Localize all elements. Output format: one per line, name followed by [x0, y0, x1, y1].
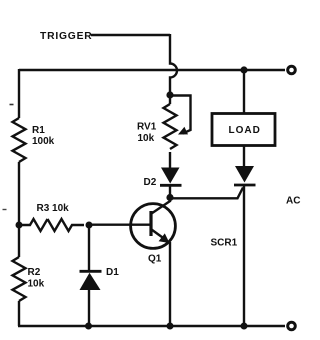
svg-text:AC: AC — [286, 196, 300, 207]
svg-text:10k: 10k — [138, 133, 155, 144]
Q1 emitter stroke — [152, 230, 167, 241]
svg-text:LOAD: LOAD — [229, 125, 261, 136]
svg-text:10k: 10k — [28, 279, 45, 290]
resistor R1 — [13, 118, 26, 162]
junction SCR1 / bottom rail — [241, 323, 248, 330]
wire left rail upper — [18, 69, 20, 118]
wire D2 cathode to collector junction — [169, 185, 171, 202]
wiper wire RV1 — [169, 96, 191, 134]
resistor R3 — [19, 219, 84, 231]
svg-text:RV1: RV1 — [137, 122, 157, 133]
svg-text:SCR1: SCR1 — [211, 238, 238, 249]
Q1 base bar — [149, 211, 152, 236]
transistor Q1 — [131, 204, 176, 249]
wire RV1 top lead — [169, 95, 171, 104]
junction top rail / LOAD branch — [240, 66, 247, 73]
junction D1 / bottom rail — [85, 323, 92, 330]
wire trigger horizontal — [91, 34, 170, 36]
junction trigger / RV1 wiper — [166, 91, 173, 98]
svg-text:100k: 100k — [32, 136, 55, 147]
wire top rail — [19, 69, 285, 71]
wire SCR1 cathode to bottom rail — [243, 185, 245, 326]
LOAD box — [212, 114, 275, 146]
diode D1 — [80, 270, 102, 273]
Q1 collector stroke — [152, 201, 171, 214]
wire left rail lower — [18, 301, 20, 326]
wire D1 to bottom rail — [88, 290, 90, 326]
junction collector / gate wire — [166, 194, 173, 201]
diode D2 — [161, 168, 180, 184]
wire gate horizontal to SCR1 — [170, 188, 243, 199]
wire scan speck left upper — [10, 104, 14, 106]
junction emitter / bottom rail — [167, 323, 174, 330]
svg-text:R1: R1 — [32, 125, 45, 136]
wire bottom rail — [18, 325, 285, 327]
svg-text:Q1: Q1 — [148, 254, 162, 265]
thyristor SCR1 — [235, 166, 254, 183]
svg-text:R2: R2 — [28, 267, 41, 278]
svg-text:D2: D2 — [144, 177, 157, 188]
potentiometer RV1 — [164, 104, 177, 149]
svg-text:R3 10k: R3 10k — [37, 203, 70, 214]
terminal top right — [288, 66, 296, 74]
resistor R2 — [13, 257, 26, 301]
wire LOAD branch top — [243, 70, 245, 113]
Q1 emitter arrowhead — [159, 233, 170, 243]
terminal bottom right — [288, 322, 296, 330]
svg-text:D1: D1 — [106, 267, 119, 278]
wire trigger vertical with hop over top rail — [170, 34, 177, 95]
wire RV1 to D2 — [169, 152, 171, 168]
wire emitter to bottom rail — [169, 242, 171, 326]
wire LOAD to SCR1 — [243, 146, 245, 168]
wire D1 anode-cathode vertical upper — [88, 225, 90, 271]
wire left rail middle — [18, 162, 20, 257]
svg-text:TRIGGER: TRIGGER — [40, 31, 93, 42]
wire scan speck left middle — [3, 209, 7, 211]
wire base from junction to Q1 — [89, 223, 150, 225]
junction R3 / D1 / base — [86, 222, 93, 229]
junction left rail / R3 — [16, 222, 23, 229]
wiper arrow RV1 — [178, 127, 188, 135]
